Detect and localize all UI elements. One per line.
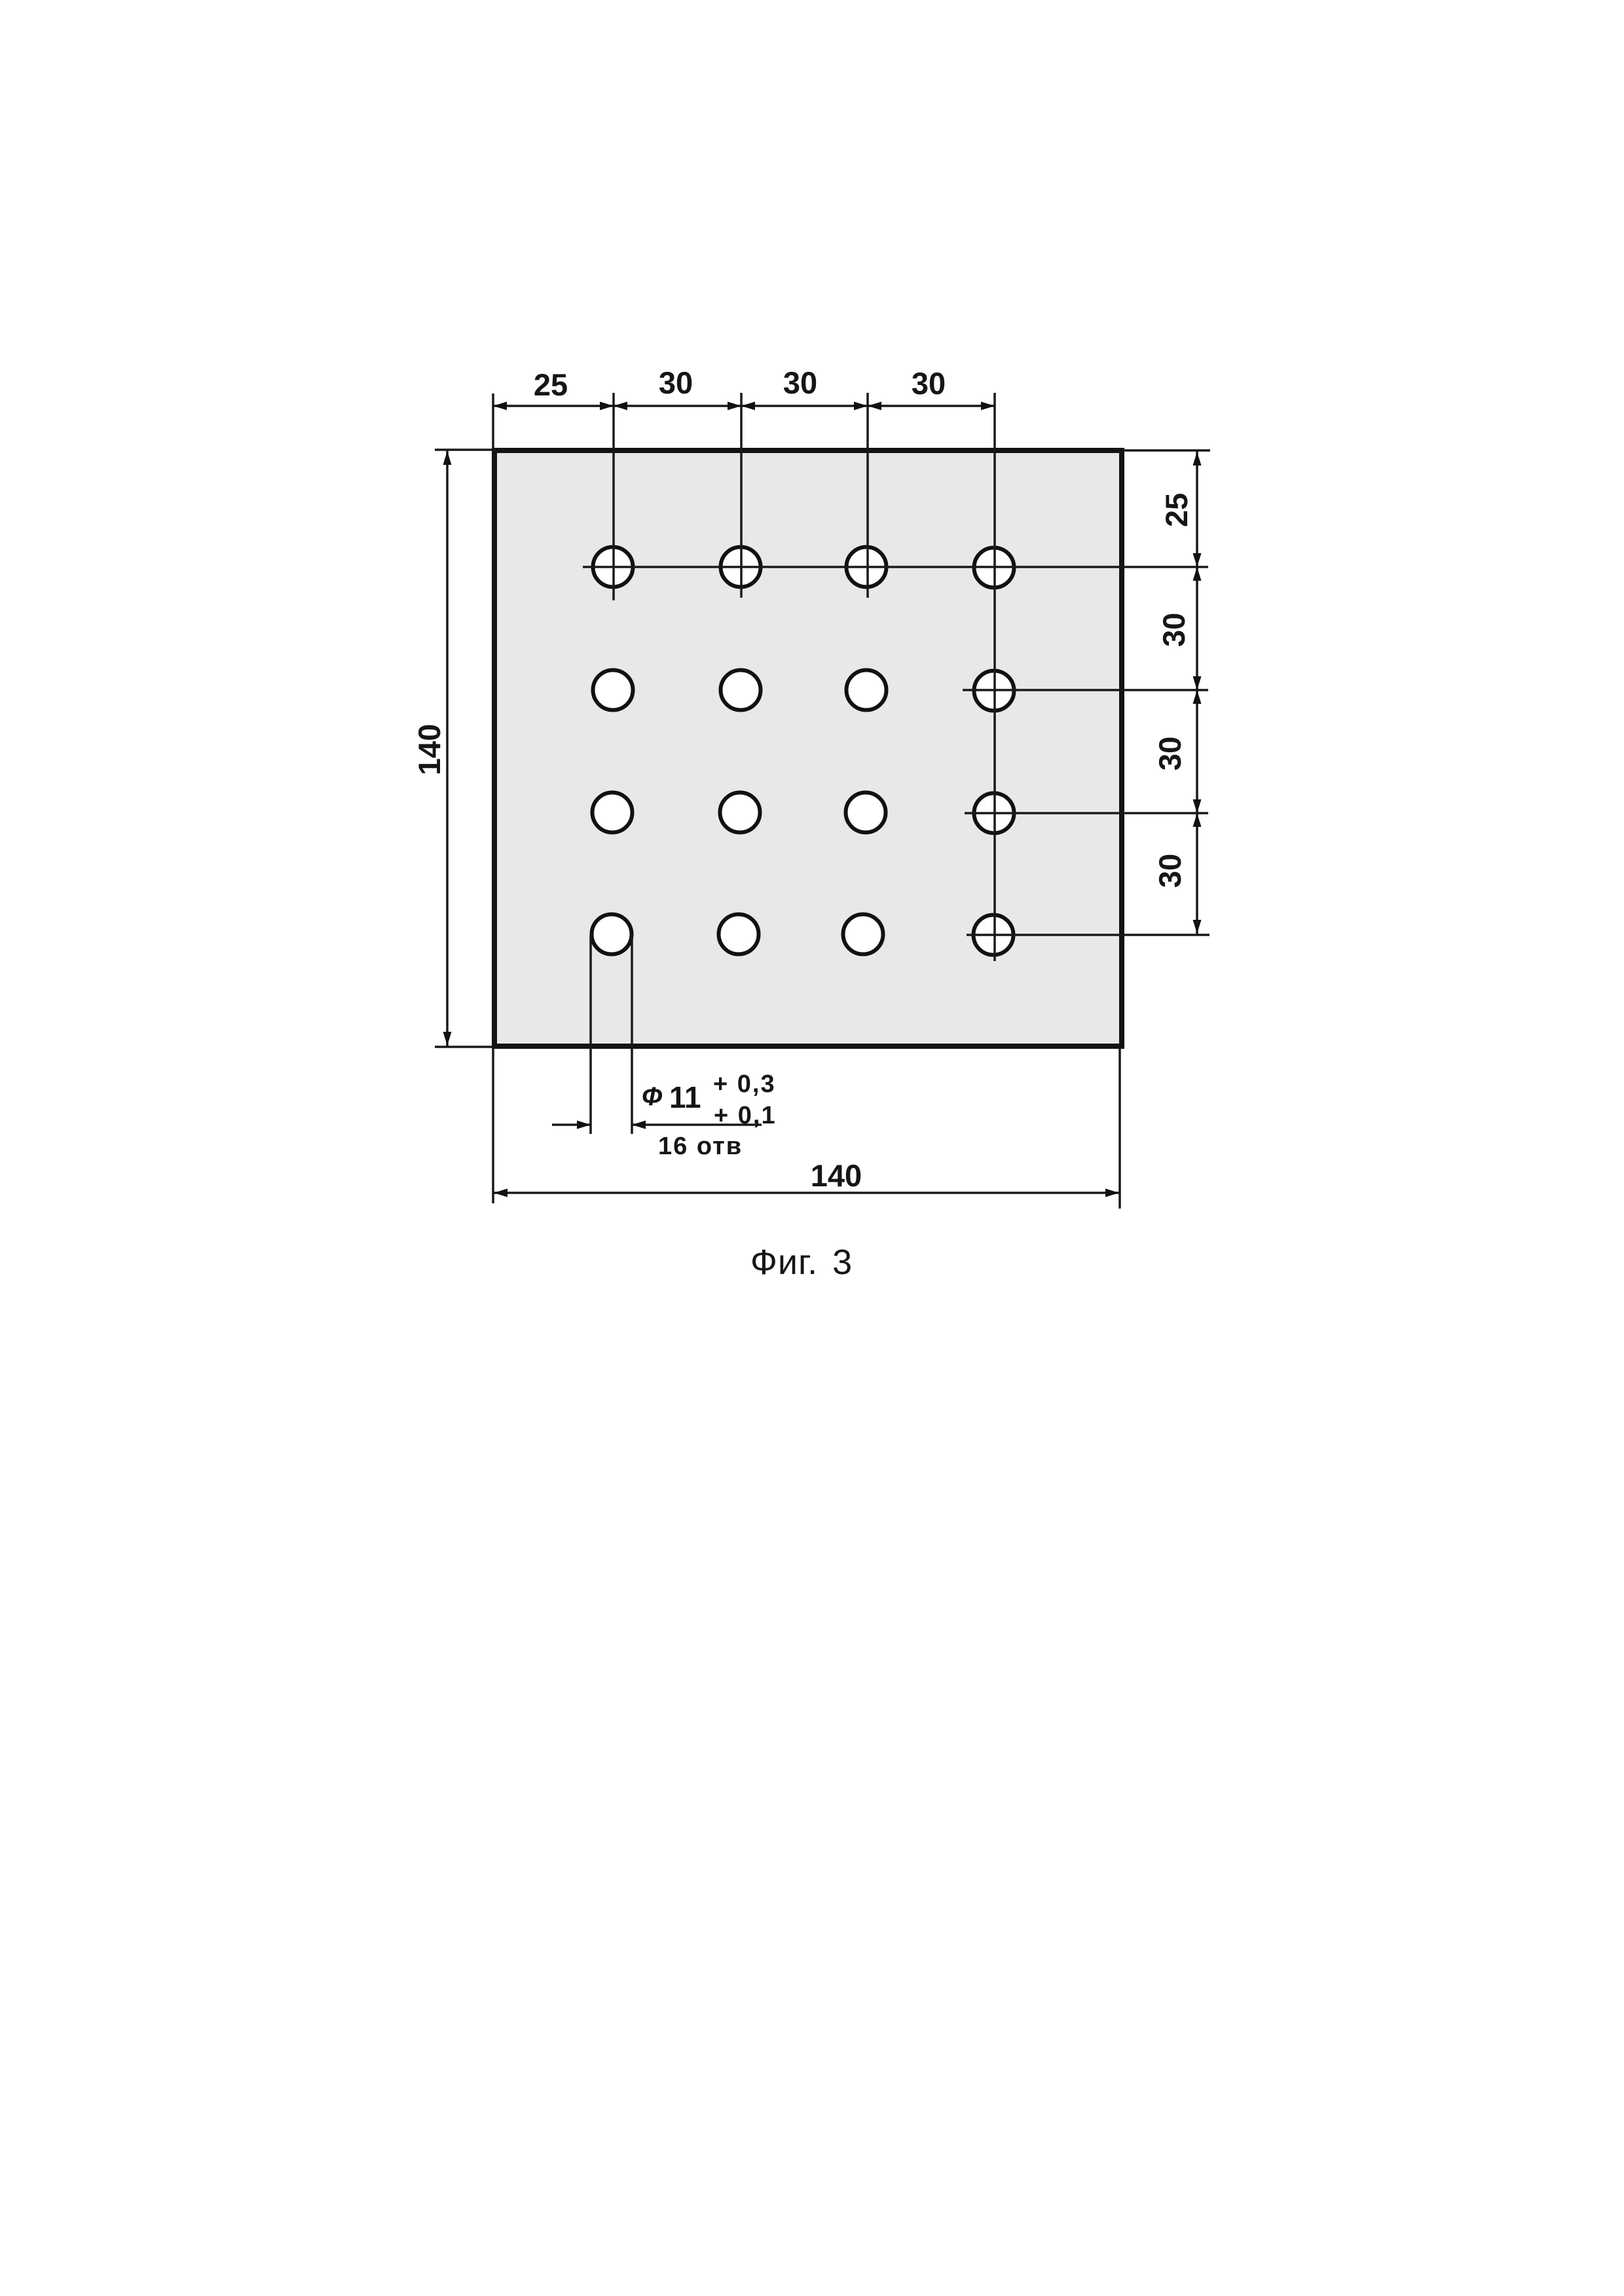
svg-text:Ф: Ф [642,1082,663,1111]
right dimension line [1196,450,1198,935]
arrow 25 right [600,402,614,410]
arrow 140 up [443,451,452,465]
left extension line [492,1048,494,1203]
arrow b140 right [1105,1189,1119,1197]
bottom dimension line [493,1192,1120,1194]
svg-text:30: 30 [1153,737,1187,771]
arrow r30a up [1193,567,1202,581]
hole row3 col1 [593,793,633,833]
left tangent extension line [589,935,592,1134]
right dimension chain 25/30/30/30 [1123,450,1210,935]
arrow 30b right [854,402,868,410]
arrow 30a left [614,402,627,410]
svg-text:25: 25 [1159,493,1194,527]
arrow 30a right [728,402,741,410]
hole row1 col2 [721,547,761,587]
svg-text:+ 0,1: + 0,1 [714,1102,777,1129]
hole row1 col3 [847,547,887,587]
hole row3 col4 [974,793,1014,833]
row1 horizontal center line [583,566,1208,568]
row2 center line stub to right dim [963,689,1208,691]
col1 vertical center line / extension [612,393,615,600]
arrow r30c down [1193,920,1202,934]
arrow 25 left [493,402,507,410]
hole row2 col4 [974,671,1014,711]
svg-text:+ 0,3: + 0,3 [713,1070,776,1098]
row3 center line stub to right dim [965,812,1208,814]
svg-text:30: 30 [659,365,693,400]
top extension line [435,448,496,451]
svg-text:Фиг. 3: Фиг. 3 [750,1243,853,1282]
arrow diameter right [632,1121,646,1129]
center lines [583,393,1209,961]
arrow r25 down [1193,553,1202,567]
left arrow leader line [552,1123,591,1126]
svg-text:30: 30 [912,366,946,401]
svg-text:11: 11 [669,1080,701,1114]
right tangent extension line [631,935,633,1134]
top right extension line [1123,449,1210,452]
hole row3 col3 [846,793,886,833]
hole row3 col2 [720,793,760,833]
right extension line [1118,1048,1121,1209]
hole row1 col1 [593,547,633,587]
svg-text:30: 30 [1153,854,1187,888]
hole row4 col1 [592,915,632,955]
hole row2 col3 [847,670,887,710]
row4 center line stub to right dim [967,934,1209,936]
arrow r30b down [1193,799,1202,813]
svg-text:30: 30 [1156,613,1191,647]
hole diameter callout [552,935,762,1134]
svg-text:16 отв: 16 отв [658,1133,743,1160]
arrow r30c up [1193,813,1202,827]
arrow 30c right [981,402,995,410]
right leader line [632,1123,762,1126]
bottom extension line [435,1046,496,1048]
plate (140x140 square, light gray fill) [494,450,1122,1046]
svg-text:30: 30 [783,365,817,400]
arrow r30b up [1193,690,1202,704]
hole row4 col2 [719,915,759,955]
arrow b140 left [494,1189,507,1197]
svg-text:25: 25 [534,367,568,402]
arrow 30c left [868,402,881,410]
col4 vertical center line long [993,393,996,961]
left extension line [492,393,494,452]
hole row4 col3 [843,915,883,955]
hole row2 col2 [721,670,761,710]
col2 vertical extension [740,393,743,598]
holes 4x4 grid [592,547,1014,955]
col3 vertical extension [866,393,869,598]
top dimension line [493,405,995,407]
hole row4 col4 [974,915,1014,955]
hole row2 col1 [593,670,633,710]
arrow r25 up [1193,452,1202,465]
left dimension 140 [435,450,496,1047]
svg-text:140: 140 [811,1158,862,1193]
svg-text:140: 140 [412,724,447,775]
left dimension line [446,450,449,1046]
arrow 30b left [741,402,755,410]
arrow r30a down [1193,676,1202,690]
hole row1 col4 [974,548,1014,588]
top dimension chain 25/30/30/30 [493,393,995,452]
arrow 140 down [443,1032,452,1046]
arrow diameter left [577,1121,591,1129]
bottom dimension 140 [493,1048,1120,1209]
